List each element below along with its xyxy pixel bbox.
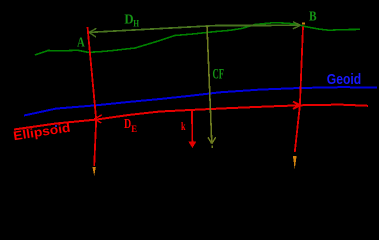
svg-text:k: k — [181, 119, 186, 133]
svg-text:A: A — [77, 36, 85, 51]
svg-text:CF: CF — [213, 66, 225, 82]
svg-text:B: B — [309, 10, 317, 25]
svg-text:H: H — [133, 19, 139, 29]
svg-text:E: E — [131, 124, 137, 134]
svg-text:D: D — [124, 117, 131, 132]
svg-text:Geoid: Geoid — [327, 72, 361, 88]
